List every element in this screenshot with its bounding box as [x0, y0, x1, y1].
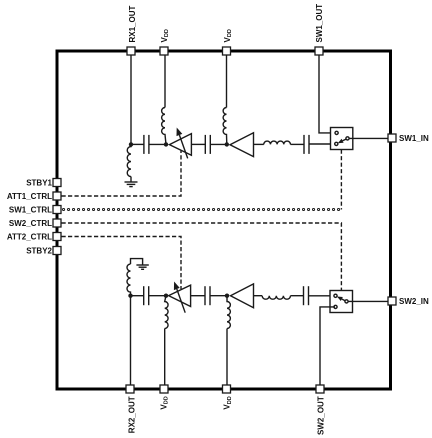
attenuator U1 triangle	[169, 134, 191, 156]
inductor L6 VDD3	[165, 296, 168, 329]
svg-text:RX1_OUT: RX1_OUT	[128, 5, 137, 42]
inductor L2 VDD1	[162, 108, 166, 145]
pin STBY1	[53, 179, 61, 187]
node B junction	[164, 142, 168, 146]
pin VDD1	[160, 47, 168, 55]
capacitor C5	[205, 286, 210, 305]
wire VDD2 top	[226, 55, 228, 108]
wire C5 to node F	[210, 295, 227, 297]
switch S1 box	[331, 128, 353, 150]
attenuator U2 triangle	[169, 285, 191, 306]
dashed control stem switch S1	[340, 150, 342, 210]
wire A1 to L4	[254, 143, 264, 145]
pin squares	[53, 47, 396, 393]
pin SW2_IN	[388, 297, 396, 305]
wire switch S2 to SW2_IN	[348, 300, 390, 302]
wire C1 to node B	[149, 143, 166, 145]
wire L5 to ground chain2	[131, 259, 143, 265]
switch S2 box	[330, 291, 353, 313]
pin SW1_OUT	[315, 47, 323, 55]
capacitor C2	[205, 135, 210, 154]
wire RX1_OUT to node A	[130, 55, 132, 144]
inductor L8 series	[262, 296, 290, 300]
wire node D to C4	[131, 295, 144, 297]
pin STBY2	[53, 247, 61, 255]
pin ATT2_CTRL	[53, 233, 61, 241]
attenuator U2 arrow	[174, 282, 185, 313]
pin RX1_OUT	[127, 47, 135, 55]
svg-text:RX2_OUT: RX2_OUT	[128, 396, 137, 433]
capacitor C4	[144, 286, 149, 305]
dashed control line ATT2_CTRL	[62, 237, 182, 290]
attenuator U1 arrow	[177, 128, 188, 159]
wire L4 to C3	[290, 143, 304, 145]
pin VDD2	[223, 47, 231, 55]
dashed control line ATT1_CTRL	[62, 151, 182, 197]
pin ATT1_CTRL	[53, 192, 61, 200]
svg-text:SW2_OUT: SW2_OUT	[317, 396, 326, 435]
wire VDD1 top	[164, 55, 166, 108]
wire C3 to switch S1	[309, 143, 335, 145]
wire node A to C1	[131, 143, 144, 145]
wire U1 to C2	[191, 143, 205, 145]
pin SW2_CTRL	[53, 219, 61, 227]
svg-text:STBY2: STBY2	[26, 246, 52, 255]
capacitor C3	[304, 135, 309, 154]
wire switch S1 to SW1_IN	[349, 137, 390, 139]
node C junction	[225, 142, 229, 146]
svg-text:SW2_CTRL: SW2_CTRL	[9, 219, 52, 228]
inductor L7 VDD4	[227, 296, 230, 329]
svg-text:ATT2_CTRL: ATT2_CTRL	[7, 232, 52, 241]
inductor L5 shunt chain2	[127, 264, 131, 296]
switch S1 contacts	[335, 131, 349, 145]
op-amp A1 LNA triangle	[230, 133, 254, 157]
pin VDD4	[223, 385, 231, 393]
pin RX2_OUT	[126, 385, 134, 393]
node A junction	[129, 142, 133, 146]
op-amp A2 LNA triangle	[231, 284, 254, 308]
wire node D to RX2_OUT	[130, 296, 132, 385]
switch S1 lever	[338, 139, 346, 143]
svg-text:SW1_CTRL: SW1_CTRL	[9, 205, 52, 214]
pin VDD3	[160, 385, 168, 393]
wire A2 to L8	[254, 295, 263, 297]
wire U2 to C5	[191, 295, 205, 297]
wire C6 to switch S2	[309, 295, 334, 297]
node D junction	[128, 294, 132, 298]
capacitor C1	[144, 135, 149, 154]
wire SW1_OUT to switch S1	[319, 55, 335, 133]
pin SW1_CTRL	[53, 206, 61, 214]
wire L6 to VDD3 bottom	[164, 329, 166, 386]
wire switch S2 to SW2_OUT	[320, 307, 335, 385]
inductor L4 series	[264, 141, 291, 144]
dashed control line SW2_CTRL	[62, 223, 342, 290]
wire L7 to VDD4 bottom	[226, 329, 228, 386]
node F junction	[225, 294, 229, 298]
IC package outline	[57, 51, 391, 389]
svg-text:STBY1: STBY1	[26, 178, 52, 187]
svg-text:SW2_IN: SW2_IN	[399, 297, 429, 306]
pin SW2_OUT	[316, 385, 324, 393]
inductor L1 shunt	[127, 144, 131, 176]
wire C2 to node C	[210, 143, 227, 145]
node E junction	[164, 294, 168, 298]
svg-text:SW1_IN: SW1_IN	[399, 134, 429, 143]
svg-text:SW1_OUT: SW1_OUT	[315, 4, 324, 43]
switch S2 lever	[337, 297, 345, 302]
wire L8 to C6	[290, 295, 303, 297]
switch S2 contacts	[334, 294, 348, 308]
ground chain2	[136, 265, 148, 269]
ground chain1	[125, 177, 138, 187]
capacitor C6	[304, 286, 309, 305]
svg-text:ATT1_CTRL: ATT1_CTRL	[7, 192, 52, 201]
inductor L3 VDD2	[223, 108, 227, 145]
dotted control line SW1_CTRL	[64, 208, 342, 211]
wire C4 to node E	[149, 295, 166, 297]
pin SW1_IN	[388, 134, 396, 142]
